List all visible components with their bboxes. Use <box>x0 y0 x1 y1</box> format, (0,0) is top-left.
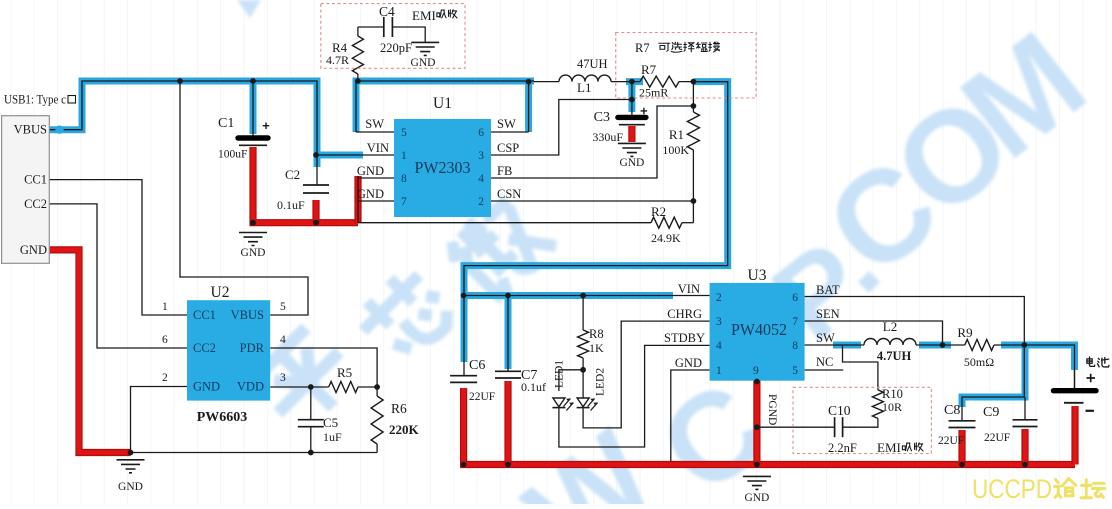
svg-text:2: 2 <box>478 196 484 208</box>
svg-text:CC1: CC1 <box>193 308 216 322</box>
svg-text:GND: GND <box>411 57 436 69</box>
svg-text:R7: R7 <box>641 62 657 77</box>
kou square <box>68 96 76 104</box>
svg-text:C10: C10 <box>828 403 851 418</box>
svg-text:1: 1 <box>162 301 168 313</box>
svg-text:6: 6 <box>162 334 168 346</box>
resistor R6 <box>371 396 383 444</box>
LED LED1 <box>553 398 565 407</box>
svg-text:SEN: SEN <box>816 307 840 321</box>
svg-text:C9: C9 <box>983 405 999 420</box>
U1 pin numbers <box>401 127 484 208</box>
svg-text:22UF: 22UF <box>469 391 495 403</box>
ground GND (C1 rail) <box>239 233 267 246</box>
wire VBUS net (blue) <box>49 81 317 167</box>
svg-text:4.7R: 4.7R <box>326 53 349 67</box>
U1 pin labels <box>357 117 521 201</box>
svg-text:GND: GND <box>675 356 702 370</box>
svg-text:C6: C6 <box>469 358 485 373</box>
wire R8 branch <box>582 296 584 331</box>
svg-text:PW2303: PW2303 <box>415 158 471 177</box>
svg-text:L1: L1 <box>577 80 591 95</box>
svg-text:C4: C4 <box>379 4 395 19</box>
svg-text:8: 8 <box>401 173 407 185</box>
svg-text:100uF: 100uF <box>218 149 247 161</box>
wire R1 chain <box>692 82 694 112</box>
svg-text:VBUS: VBUS <box>14 123 47 137</box>
wire VIN row U3 (blue) <box>464 292 673 299</box>
wire U2 PDR <box>270 348 377 387</box>
svg-text:R1: R1 <box>669 127 684 142</box>
svg-text:R9: R9 <box>957 325 972 340</box>
svg-text:FB: FB <box>497 164 512 178</box>
svg-text:L2: L2 <box>883 319 897 334</box>
svg-text:GND: GND <box>744 492 769 504</box>
R7 dashed box <box>616 33 756 99</box>
svg-text:3: 3 <box>478 150 484 162</box>
svg-text:UCCPD: UCCPD <box>972 474 1052 504</box>
svg-text:GND: GND <box>241 247 266 259</box>
svg-text:4.7UH: 4.7UH <box>877 349 912 363</box>
capacitor C3 <box>618 115 646 120</box>
wire U2 VDD / R5 / R6 node <box>270 386 329 388</box>
U3 pin numbers <box>716 292 798 377</box>
svg-text:47UH: 47UH <box>577 57 608 71</box>
wire U1 GND pins <box>358 177 394 179</box>
wire CC2 <box>49 204 187 348</box>
battery BT1 <box>1054 388 1097 393</box>
ground GND (U2) <box>117 460 145 473</box>
svg-text:SW: SW <box>365 117 384 131</box>
svg-text:330uF: 330uF <box>592 130 623 144</box>
svg-text:4: 4 <box>478 173 484 185</box>
svg-text:STDBY: STDBY <box>664 331 705 345</box>
wire C8 C9 stubs <box>962 345 1024 421</box>
resistor R9 <box>965 340 994 351</box>
U2 pin labels <box>193 308 265 394</box>
svg-text:GND: GND <box>193 380 220 394</box>
svg-text:CC1: CC1 <box>24 173 47 187</box>
wire SW U1 pin6 <box>491 131 529 133</box>
svg-text:SW: SW <box>816 331 835 345</box>
svg-text:8: 8 <box>792 340 798 352</box>
wire U3 SEN <box>805 321 943 345</box>
transistor U2 PW6603 <box>187 300 270 400</box>
svg-text:220pF: 220pF <box>380 41 412 55</box>
svg-text:U3: U3 <box>748 267 767 284</box>
EMI box 2 <box>793 387 931 453</box>
node VBUS pin dot <box>55 126 63 134</box>
wire U3 GND pin1 <box>671 370 710 462</box>
svg-text:1: 1 <box>401 150 407 162</box>
svg-text:CSP: CSP <box>497 141 519 155</box>
wire L1 to R7 <box>534 81 559 83</box>
svg-text:5: 5 <box>792 365 798 377</box>
wire C3 stub <box>631 82 633 116</box>
svg-text:C1: C1 <box>218 116 234 131</box>
wire LED2 branch <box>582 370 584 398</box>
svg-text:C5: C5 <box>323 415 338 430</box>
wire CC1 <box>49 180 187 315</box>
wire CSP <box>491 100 632 156</box>
wire LED1 branch <box>559 370 583 391</box>
svg-text:25mR: 25mR <box>639 86 668 100</box>
svg-text:4: 4 <box>716 340 722 352</box>
wire FB <box>491 106 693 178</box>
capacitor C6 <box>450 375 477 377</box>
svg-text:EMI: EMI <box>877 440 901 455</box>
svg-text:50mΩ: 50mΩ <box>964 355 994 369</box>
U2 pin numbers <box>162 301 286 384</box>
wire U2 bottom ground line <box>131 452 378 454</box>
resistor R1 <box>687 112 699 150</box>
wire VBUS to U2 pin5 <box>180 81 308 315</box>
svg-text:R8: R8 <box>589 327 604 341</box>
wire SW row U3 (blue) <box>833 342 861 349</box>
svg-text:C8: C8 <box>944 403 960 418</box>
svg-text:1uF: 1uF <box>323 430 342 444</box>
wire blue centerlines right <box>464 82 728 296</box>
wire C5 <box>310 387 312 420</box>
svg-text:6: 6 <box>792 292 798 304</box>
svg-text:VBUS: VBUS <box>231 308 264 322</box>
svg-text:CC2: CC2 <box>24 197 47 211</box>
svg-text:GND: GND <box>619 157 644 169</box>
svg-text:R2: R2 <box>651 204 666 219</box>
svg-text:5: 5 <box>280 301 286 313</box>
wire R2 to ground rail <box>358 222 651 224</box>
wire GND red: bottom ground rail <box>464 388 1075 465</box>
svg-text:0.1uF: 0.1uF <box>277 198 305 212</box>
U3 pin labels <box>664 282 840 370</box>
svg-text:3: 3 <box>716 316 722 328</box>
svg-text:4: 4 <box>280 334 286 346</box>
svg-text:GND: GND <box>118 481 143 493</box>
svg-text:22UF: 22UF <box>938 435 964 447</box>
svg-text:PW6603: PW6603 <box>197 410 248 425</box>
ground GND (C4) <box>411 42 439 55</box>
CJK texts <box>437 10 446 18</box>
svg-text:7: 7 <box>401 196 407 208</box>
capacitor C2 <box>303 184 329 186</box>
svg-text:1: 1 <box>716 365 722 377</box>
svg-text:R10: R10 <box>882 387 903 401</box>
wire SW U1 pin5 <box>356 81 534 132</box>
wire VBUS centerline <box>49 81 317 185</box>
svg-text:3: 3 <box>280 372 286 384</box>
wire GND red: USB GND to U2 ground <box>49 250 131 453</box>
capacitor C9 <box>1013 419 1038 421</box>
wire C10 to PGND <box>757 426 835 428</box>
svg-text:NC: NC <box>816 355 833 369</box>
capacitor C5 <box>298 419 324 421</box>
wire U3 BAT <box>805 297 1025 346</box>
USB pin labels <box>14 123 47 258</box>
svg-text:PW4052: PW4052 <box>731 320 787 339</box>
svg-text:100K: 100K <box>662 143 689 157</box>
EMI box 1 <box>321 4 465 69</box>
svg-text:PGND: PGND <box>766 394 778 425</box>
svg-text:5: 5 <box>401 127 407 139</box>
svg-text:R5: R5 <box>337 365 352 380</box>
resistor R10 <box>872 390 883 419</box>
capacitor C8 <box>949 420 976 422</box>
resistor R4 <box>352 36 363 74</box>
wire R10 branch <box>843 345 878 390</box>
resistor R2 <box>651 217 682 228</box>
resistor R7 <box>640 76 679 87</box>
capacitor C4 <box>383 17 385 37</box>
svg-text:220K: 220K <box>389 422 420 437</box>
svg-text:U2: U2 <box>211 284 230 301</box>
svg-text:LED1: LED1 <box>554 360 566 388</box>
capacitor C10 <box>834 417 836 437</box>
svg-text:R6: R6 <box>391 401 407 416</box>
wire VOUT node (blue) <box>626 78 643 85</box>
watermark <box>249 189 556 438</box>
inductor L2 <box>864 339 916 346</box>
svg-text:SW: SW <box>497 117 516 131</box>
svg-text:CC2: CC2 <box>193 341 216 355</box>
resistor R5 <box>329 382 358 393</box>
regulator U3 PW4052 <box>710 283 805 381</box>
svg-text:24.9K: 24.9K <box>651 231 681 245</box>
svg-text:VDD: VDD <box>237 380 264 394</box>
wire U3 SW row centerline <box>805 344 864 346</box>
ground GND (PGND) <box>743 476 771 489</box>
battery labels <box>1087 374 1096 383</box>
svg-text:BAT: BAT <box>816 283 840 297</box>
svg-text:0.1uf: 0.1uf <box>521 380 546 394</box>
wire U2 GND pin2 <box>131 387 188 453</box>
svg-text:GND: GND <box>357 164 384 178</box>
wire battery stub <box>1074 370 1076 388</box>
svg-text:6: 6 <box>478 127 484 139</box>
svg-text:CSN: CSN <box>497 187 521 201</box>
svg-text:7: 7 <box>792 316 798 328</box>
svg-text:GND: GND <box>20 243 47 257</box>
capacitor C1 <box>238 135 268 140</box>
wire C6 C7 stubs <box>463 296 465 376</box>
wire SW node U1 (blue) <box>356 81 534 132</box>
svg-text:10R: 10R <box>882 400 902 414</box>
svg-text:U1: U1 <box>433 95 452 112</box>
capacitor C7 <box>495 370 521 372</box>
LED LED2 <box>577 398 589 407</box>
svg-text:C3: C3 <box>594 110 610 125</box>
svg-text:R7: R7 <box>635 41 650 55</box>
svg-text:LED2: LED2 <box>595 368 607 396</box>
svg-text:2.2nF: 2.2nF <box>828 441 857 455</box>
svg-text:GND: GND <box>357 187 384 201</box>
wire CSN <box>491 201 693 223</box>
svg-text:USB1: Type c: USB1: Type c <box>4 93 66 107</box>
svg-text:22UF: 22UF <box>984 432 1010 444</box>
wire GND red: C3 ground stub <box>628 126 635 142</box>
svg-text:C2: C2 <box>285 167 300 182</box>
svg-text:2: 2 <box>162 372 168 384</box>
svg-text:VIN: VIN <box>367 141 389 155</box>
svg-text:EMI: EMI <box>412 8 436 23</box>
svg-text:VIN: VIN <box>678 282 700 296</box>
op-amp U1 PW2303 <box>394 119 491 217</box>
USB connector J1 <box>2 116 50 264</box>
svg-text:2: 2 <box>716 292 722 304</box>
resistor R8 <box>578 330 589 358</box>
svg-text:1K: 1K <box>589 341 604 355</box>
svg-text:PDR: PDR <box>240 341 265 355</box>
wire U3 NC stub <box>805 369 844 371</box>
svg-text:9: 9 <box>753 365 759 377</box>
inductor L1 <box>559 75 611 82</box>
wire GND red: C1/C2/U1 ground rail <box>253 147 358 223</box>
svg-text:CHRG: CHRG <box>667 307 702 321</box>
ground GND (C3) <box>618 143 646 156</box>
